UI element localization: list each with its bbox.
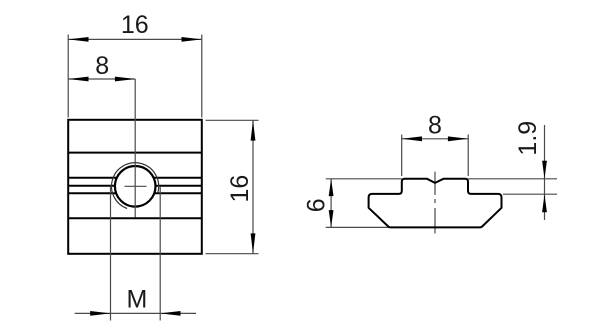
svg-text:8: 8: [428, 111, 442, 139]
dimension 16 top: right arrow: [182, 37, 202, 42]
dimension 16 top: left arrow: [68, 37, 88, 42]
extension line left (x=110.5) for dim M: [110, 186, 112, 320]
spring groove line y=193.3 (interrupted by hole): [68, 192, 202, 194]
extension line left (x=68.2) for dims 16 and 8: [67, 35, 69, 118]
extension line right (x=160.2) for dim M: [159, 186, 161, 320]
extension line y=227.4 bottom (for dim 6): [326, 226, 389, 228]
svg-text:M: M: [126, 286, 147, 314]
centerline vertical through hole (x=135.2): [134, 79, 136, 218]
dimension 8: right arrow: [115, 77, 135, 82]
dimension 1.9: lower arrow (pointing up): [542, 194, 547, 212]
thread arc (thin, ~265 degrees): [112, 163, 159, 209]
hole white fill (mask for groove lines): [115, 166, 156, 207]
dimension M: left arrow (outside, pointing right): [90, 311, 110, 316]
extension line y=194.2 (right, for dim 1.9): [503, 193, 557, 195]
dimension 8 right view: line: [402, 138, 469, 140]
spring groove line y=177.8 (interrupted by hole): [68, 177, 202, 179]
spring groove line y=185.8 (interrupted by hole): [68, 185, 202, 187]
svg-text:6: 6: [303, 198, 331, 212]
dimension 8: line: [68, 78, 135, 80]
dimension 16 top: line: [68, 38, 202, 40]
extension line top for right dim 16: [206, 119, 259, 121]
svg-text:8: 8: [95, 52, 109, 80]
crosshair horizontal: [125, 185, 147, 187]
top view outline square: [68, 120, 202, 254]
dimension 16 right: top arrow: [251, 120, 256, 140]
dimension 6: line: [330, 179, 332, 228]
dimension M: right arrow (outside, pointing left): [160, 311, 180, 316]
groove line y=152.6: [68, 152, 202, 154]
extension line y=178.8 (left part, for dim 6): [326, 178, 402, 180]
dimension 1.9: line: [544, 125, 546, 220]
profile outline: [369, 179, 502, 228]
profile centerline (dash-dot): [434, 172, 436, 234]
svg-text:1.9: 1.9: [514, 121, 542, 156]
dimension M: line: [75, 312, 196, 314]
dimension 16 right: bottom arrow: [251, 233, 256, 253]
extension line (x=401.7) for dim 8 right view: [401, 135, 403, 177]
dimension 8: left arrow: [68, 77, 88, 82]
dimension 8 right view: left arrow: [402, 136, 422, 141]
svg-text:16: 16: [226, 175, 254, 203]
groove line y=218.3: [68, 217, 202, 219]
dimension 6: bottom arrow: [329, 210, 334, 227]
dimension 16 right: line: [252, 120, 254, 253]
svg-text:16: 16: [121, 11, 149, 39]
extension line right (x=201.8) for dim 16 top: [201, 35, 203, 118]
extension line (x=468.2) for dim 8 right view: [467, 135, 469, 177]
extension line bottom for right dim 16: [206, 253, 259, 255]
dimension 1.9: upper arrow (pointing down): [542, 161, 547, 179]
dimension 8 right view: right arrow: [448, 136, 468, 141]
tapped hole circle: [115, 166, 156, 207]
dimension 6: top arrow: [329, 179, 334, 196]
extension line y=178.8 (right part, for dim 1.9): [468, 178, 557, 180]
